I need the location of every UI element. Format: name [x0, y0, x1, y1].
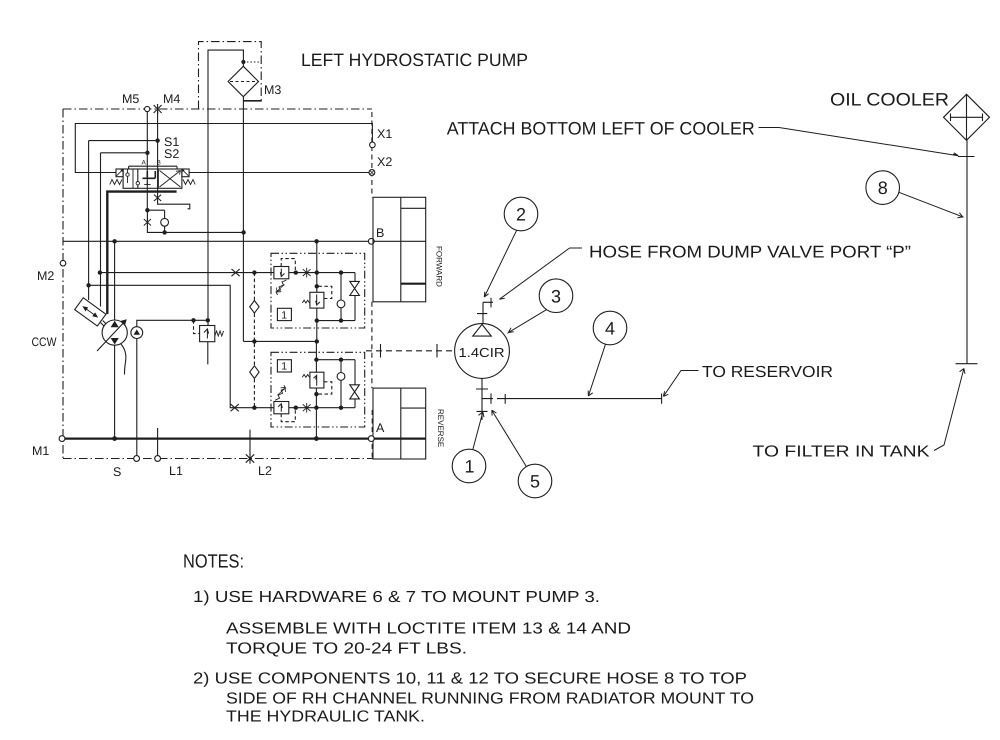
- node under valve: [145, 208, 149, 212]
- relief valve V1: [200, 326, 215, 342]
- X1 pilot loop wire: [75, 124, 372, 173]
- port A: [368, 436, 374, 442]
- check ball lower: [337, 373, 345, 381]
- cylinder REVERSE: [373, 388, 426, 459]
- svg-text:HOSE FROM DUMP VALVE PORT “P”: HOSE FROM DUMP VALVE PORT “P”: [589, 243, 911, 262]
- wire upper shutoff to connector: [354, 296, 356, 321]
- node upper conn c: [339, 318, 343, 322]
- wire M5 drop: [147, 210, 243, 232]
- reducing pilot dashed upper: [318, 286, 332, 298]
- lower module box: [271, 352, 365, 427]
- node line2 start: [86, 283, 90, 287]
- svg-text:ATTACH BOTTOM LEFT OF COOLER: ATTACH BOTTOM LEFT OF COOLER: [447, 119, 755, 139]
- valve U1 left solenoid cap: [116, 169, 123, 177]
- wire check bottom: [164, 226, 166, 232]
- svg-text:X2: X2: [377, 155, 392, 169]
- port X2: [369, 170, 375, 176]
- wire S1: [89, 140, 158, 142]
- svg-text:ASSEMBLE WITH LOCTITE ITEM 13: ASSEMBLE WITH LOCTITE ITEM 13 & 14 AND: [226, 621, 631, 638]
- svg-text:L2: L2: [258, 464, 272, 478]
- wire upper port line inside: [289, 272, 355, 274]
- node lower conn c: [339, 358, 343, 362]
- item1 tag lower: [277, 360, 291, 372]
- node drain to filter line: [241, 230, 245, 234]
- wire M5 line: [146, 112, 148, 211]
- svg-text:8: 8: [878, 178, 888, 198]
- wire charge suction to S: [136, 339, 138, 456]
- wire L1 stub: [157, 428, 159, 456]
- swash link: [101, 321, 108, 328]
- orifice upper port line: [303, 268, 311, 278]
- svg-text:THE HYDRAULIC TANK.: THE HYDRAULIC TANK.: [226, 709, 425, 726]
- port L1: [155, 456, 161, 462]
- svg-text:A: A: [142, 160, 147, 167]
- wire check branch top: [147, 210, 164, 218]
- svg-text:M5: M5: [122, 92, 139, 106]
- relief V1 spring: [215, 331, 224, 336]
- svg-text:A: A: [376, 421, 385, 435]
- callout 2: [504, 197, 538, 231]
- charge pump P2: [131, 327, 143, 339]
- item1 tag upper: [277, 308, 291, 320]
- wire S2: [101, 152, 148, 154]
- node relief top: [206, 318, 210, 322]
- filter M3: [228, 66, 258, 96]
- svg-text:1: 1: [465, 457, 475, 477]
- callout 8: [866, 171, 900, 205]
- node check drain: [162, 230, 166, 234]
- callout 5: [518, 464, 552, 498]
- wire lower connector: [316, 360, 355, 408]
- port S: [134, 456, 140, 462]
- svg-text:SIDE OF RH CHANNEL RUNNING FRO: SIDE OF RH CHANNEL RUNNING FROM RADIATOR…: [226, 691, 754, 708]
- port M1: [59, 436, 65, 442]
- wire filter to inter-module line: [242, 97, 244, 342]
- valve U1 left spring: [110, 180, 122, 185]
- svg-text:TO RESERVOIR: TO RESERVOIR: [702, 364, 833, 381]
- reducing pilot dashed lower: [318, 382, 332, 394]
- node upper b: [315, 270, 319, 274]
- pump P1 case drain curve: [121, 344, 126, 375]
- node B pump drop: [112, 239, 116, 243]
- check valve C1: [161, 218, 169, 226]
- upper relief spring: [276, 280, 287, 295]
- lower relief valve: [274, 402, 289, 414]
- wire tank thick L under valve: [107, 192, 176, 314]
- node bypass bottom: [252, 406, 256, 410]
- svg-text:X1: X1: [377, 127, 392, 141]
- node line1 start: [98, 270, 102, 274]
- wire lower right branch: [354, 399, 356, 408]
- reducing valve upper: [310, 292, 324, 308]
- port M2: [60, 260, 66, 266]
- svg-text:OIL COOLER: OIL COOLER: [830, 90, 949, 110]
- pump P1 flow triangles: [111, 321, 119, 327]
- wire lower shutoff to connector: [354, 360, 356, 385]
- valve U1 left cell detail: [128, 169, 134, 188]
- svg-text:FORWARD: FORWARD: [435, 246, 444, 287]
- lower relief pilot dashed: [281, 410, 295, 422]
- orifice line2: [231, 404, 239, 411]
- pilot dashed to relief V1: [194, 320, 200, 333]
- charge supply dashed to pump3: [366, 350, 454, 352]
- wire upper right branch: [354, 273, 356, 282]
- node S2 junction: [145, 151, 149, 155]
- node upper pilot: [315, 284, 319, 288]
- svg-text:1.4CIR: 1.4CIR: [459, 345, 505, 360]
- node lower conn b: [314, 358, 318, 362]
- pump P1 variable arrow: [97, 321, 126, 351]
- node bypass top: [252, 270, 256, 274]
- wire lower centre riser: [315, 341, 317, 372]
- callout 1: [452, 449, 486, 483]
- svg-text:TO FILTER IN TANK: TO FILTER IN TANK: [753, 444, 930, 461]
- port M4 plug: [154, 104, 162, 114]
- valve U1 pilot cap line: [129, 166, 177, 169]
- wire B line: [63, 240, 426, 242]
- orifice lower port line: [303, 403, 311, 413]
- node charge pilot: [191, 318, 195, 322]
- reducing spring upper: [302, 300, 309, 303]
- svg-text:M3: M3: [264, 83, 281, 97]
- svg-text:L1: L1: [169, 464, 183, 478]
- port X1: [370, 142, 376, 148]
- valve U1 centre cell detail: [143, 171, 156, 178]
- callout 3: [539, 279, 573, 313]
- wire upper check branch: [340, 273, 342, 300]
- svg-text:B: B: [376, 226, 384, 240]
- orifice on M5 drop: [144, 218, 151, 228]
- svg-text:1) USE HARDWARE 6 & 7 TO MOUNT: 1) USE HARDWARE 6 & 7 TO MOUNT PUMP 3.: [193, 589, 600, 606]
- node S1 junction: [155, 138, 159, 142]
- wire upper centre drop: [316, 241, 318, 292]
- svg-text:1: 1: [281, 361, 287, 373]
- wire lower check branch: [340, 380, 342, 407]
- valve U1 right solenoid cap: [182, 169, 189, 177]
- orifice line1: [232, 269, 240, 276]
- svg-text:2) USE COMPONENTS 10, 11 & 12: 2) USE COMPONENTS 10, 11 & 12 TO SECURE …: [193, 671, 747, 688]
- node upper c: [339, 270, 343, 274]
- oil cooler symbol: [944, 94, 990, 140]
- wire lower port line inside: [289, 407, 355, 409]
- shutoff valve upper: [350, 281, 360, 295]
- node B module drop: [314, 239, 318, 243]
- bypass dashed line with checks: [253, 273, 255, 408]
- wire pump feed vertical: [114, 241, 116, 320]
- svg-text:2: 2: [516, 205, 526, 225]
- cooler attach tick: [958, 156, 975, 158]
- wire relief drain: [207, 342, 209, 365]
- reducing valve lower: [310, 372, 324, 388]
- wire L2 stub: [249, 430, 251, 455]
- svg-text:M2: M2: [37, 269, 54, 283]
- node filter top: [241, 60, 245, 64]
- node lower a: [294, 406, 298, 410]
- top pipe inner wire: [208, 50, 243, 109]
- pump3 circle 1.4CIR: [455, 324, 510, 379]
- top pipe outer dash-dot: [199, 42, 262, 109]
- hose fitting top: [477, 298, 493, 324]
- wire upper connector: [317, 308, 355, 341]
- wire line1 to upper module: [100, 272, 274, 274]
- svg-text:5: 5: [530, 472, 540, 492]
- wire M1 line thick: [62, 437, 426, 439]
- cylinder FORWARD: [373, 197, 426, 301]
- tick b: [436, 344, 438, 358]
- node M1 pump: [112, 436, 117, 441]
- svg-text:S: S: [113, 465, 121, 479]
- node inter-module: [252, 339, 256, 343]
- port M5: [145, 106, 150, 111]
- hose fitting bottom: [476, 379, 493, 421]
- svg-text:REVERSE: REVERSE: [436, 409, 445, 447]
- orifice below valve on M4: [154, 195, 161, 201]
- enclosure right dashed edge: [371, 112, 373, 459]
- svg-text:NOTES:: NOTES:: [183, 552, 244, 573]
- wire line2 to lower module: [89, 285, 274, 407]
- lower relief spring: [275, 385, 286, 400]
- svg-text:LEFT HYDROSTATIC PUMP: LEFT HYDROSTATIC PUMP: [301, 50, 528, 70]
- node M1 module: [314, 436, 319, 441]
- wire charge outlet: [137, 320, 208, 326]
- cooler hose wire: [966, 140, 968, 364]
- filter attach tick: [956, 363, 978, 365]
- tick a: [380, 344, 382, 358]
- wire pipe branch to relief: [207, 109, 209, 326]
- enclosure border dash-dot: [63, 109, 373, 459]
- wire S2 pilot vertical: [100, 153, 102, 307]
- svg-text:CCW: CCW: [32, 335, 57, 349]
- node upper a: [294, 270, 298, 274]
- node upper conn b: [315, 318, 319, 322]
- pump P1 circle: [102, 320, 127, 345]
- svg-text:S2: S2: [164, 147, 179, 161]
- top pipe stub: [244, 100, 262, 102]
- filter feed dotted: [243, 61, 261, 63]
- check ball upper: [337, 300, 345, 308]
- port B: [368, 238, 374, 244]
- wire M4 elbow: [158, 201, 190, 209]
- upper module box: [271, 253, 365, 328]
- svg-text:3: 3: [551, 286, 561, 306]
- svg-text:4: 4: [605, 319, 615, 339]
- wire pump to M1: [114, 345, 116, 438]
- svg-text:M4: M4: [163, 92, 180, 106]
- upper relief valve: [274, 267, 289, 279]
- inter-module wire: [243, 340, 316, 342]
- shutoff valve lower: [350, 385, 360, 399]
- svg-text:TORQUE TO 20-24 FT LBS.: TORQUE TO 20-24 FT LBS.: [226, 641, 467, 658]
- valve U1 crossed arrows cell: [160, 171, 181, 188]
- wire lower centre to M1: [315, 408, 317, 439]
- node lower c: [339, 406, 343, 410]
- swash actuator tilted: [75, 298, 106, 326]
- svg-text:B: B: [157, 160, 161, 167]
- svg-text:1: 1: [281, 309, 287, 321]
- wire to reservoir: [497, 394, 662, 404]
- valve U1 right spring: [183, 180, 195, 185]
- wire X2 line: [189, 172, 369, 174]
- valve U1 body: [123, 169, 182, 188]
- node lower b: [314, 406, 318, 410]
- node inter-module b: [315, 339, 319, 343]
- reducing spring lower: [302, 375, 309, 378]
- port L2 plug: [246, 453, 254, 463]
- upper relief pilot dashed: [281, 259, 295, 270]
- wire M4 line: [157, 112, 159, 195]
- node lower pilot: [314, 392, 318, 396]
- wire S1 pilot vertical: [88, 141, 90, 300]
- svg-text:M1: M1: [32, 444, 49, 458]
- bypass check upper: [250, 301, 259, 314]
- callout 4: [593, 311, 627, 345]
- bypass check lower: [250, 366, 259, 379]
